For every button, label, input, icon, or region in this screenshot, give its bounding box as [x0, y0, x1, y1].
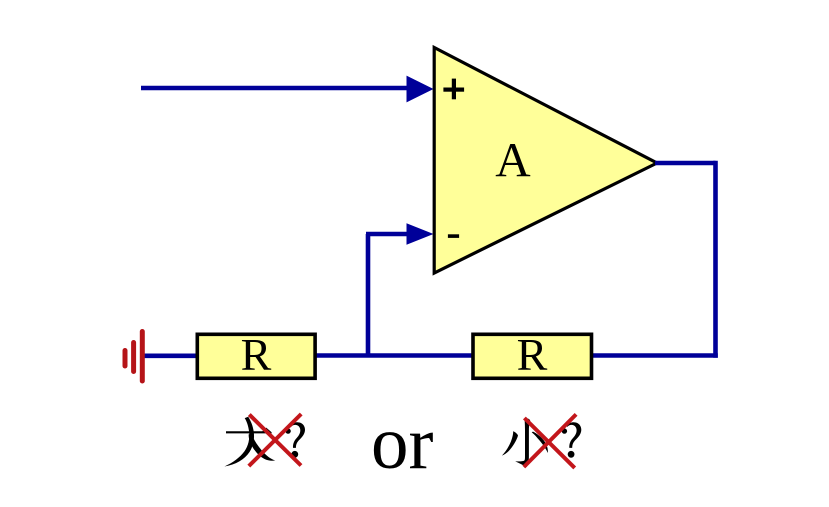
op-amp U1	[434, 48, 657, 274]
central vertical stroke with hook of 小	[515, 418, 530, 467]
left stroke of 小	[502, 431, 518, 455]
resistor R2	[473, 334, 592, 378]
wire: non-inverting input	[141, 86, 412, 91]
X cross over small?	[524, 414, 576, 468]
wire: output vertical down	[713, 161, 718, 358]
svg-text:or: or	[371, 402, 434, 485]
text: question mark after large	[285, 422, 305, 457]
wire: between R1 and R2 with junction node	[316, 353, 473, 358]
svg-text:A: A	[495, 132, 531, 187]
left-falling stroke of 大	[225, 417, 255, 467]
svg-text:R: R	[241, 329, 272, 380]
text: large (CJK glyph 大 drawn as paths)	[225, 417, 276, 467]
right-falling stroke of 大	[249, 434, 276, 460]
text: question mark after small	[562, 422, 582, 457]
text: small (CJK glyph 小 drawn as paths)	[502, 418, 548, 467]
X cross over large?	[249, 414, 301, 466]
ground symbol	[125, 332, 142, 382]
horizontal stroke of 大	[226, 428, 272, 434]
plus label at + input	[443, 79, 464, 100]
svg-text:R: R	[517, 329, 548, 380]
minus label at - input	[448, 234, 459, 238]
arrowhead at + input	[407, 76, 434, 103]
right stroke of 小	[532, 432, 548, 453]
wire: ground to R1	[143, 353, 197, 358]
wire: feedback bottom from output to R2	[592, 353, 718, 358]
resistor R1	[197, 334, 315, 378]
wire: output horizontal	[655, 161, 716, 166]
wire: feedback vertical	[366, 234, 371, 357]
wire: feedback horizontal to - input	[366, 232, 410, 237]
arrowhead at - input	[407, 223, 434, 245]
